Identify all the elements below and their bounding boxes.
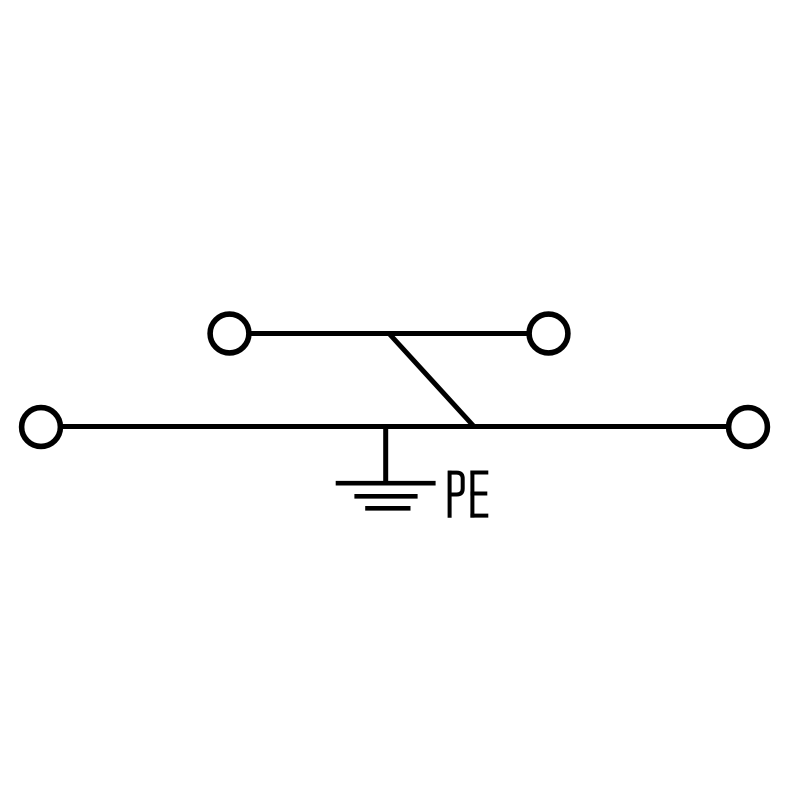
ground symbol [336, 483, 436, 508]
label PE [448, 471, 488, 518]
wire diagonal crossover [389, 334, 474, 427]
letter P [448, 471, 452, 518]
terminal circle bottom-right [729, 408, 768, 447]
terminal circle top-right [529, 314, 568, 353]
terminal circle top-left [210, 314, 249, 353]
letter E [470, 471, 474, 518]
wire vertical to ground [383, 427, 388, 484]
wire top horizontal [251, 331, 528, 336]
ground bar 1 [336, 481, 436, 486]
wire bottom horizontal [62, 424, 727, 429]
ground bar 2 [354, 494, 417, 499]
terminal circle bottom-left [22, 408, 61, 447]
ground bar 3 [365, 506, 410, 511]
